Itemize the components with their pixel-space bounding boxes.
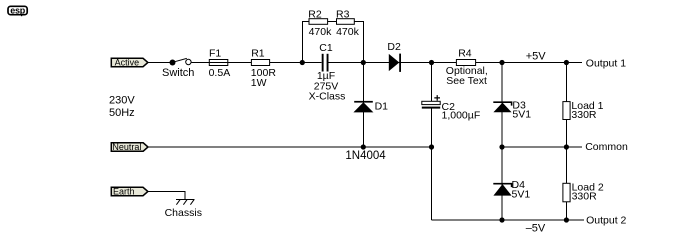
svg-text:Switch: Switch [162,67,194,79]
wire C2 bottom to minus rail [431,109,433,220]
svg-text:0.5A: 0.5A [209,67,231,79]
junction C2 neutral [429,144,434,149]
resistor Load2 [563,183,570,202]
svg-text:–5V: –5V [526,222,546,234]
svg-text:R4: R4 [458,47,472,59]
wire neutral rail [148,146,432,148]
svg-text:1W: 1W [251,77,267,89]
svg-text:Output 1: Output 1 [586,58,626,70]
svg-text:+5V: +5V [526,50,547,62]
svg-text:470k: 470k [309,26,333,38]
svg-text:470k: 470k [336,26,360,38]
node C junction [429,60,434,65]
svg-text:F1: F1 [209,47,221,59]
svg-text:230V: 230V [109,94,135,106]
wire C2 top [431,63,433,102]
wire earth lead [148,192,185,200]
svg-text:Active: Active [115,58,140,68]
resistor R1 [251,60,269,66]
diode D1 [353,101,373,113]
svg-text:esp: esp [10,5,25,15]
svg-text:50Hz: 50Hz [109,107,135,119]
svg-text:D2: D2 [387,41,401,53]
wire top loop R2 R3 [302,22,363,63]
switch pole dot [170,60,176,66]
svg-text:5V1: 5V1 [512,188,531,200]
svg-text:330R: 330R [572,190,598,202]
svg-text:Common: Common [585,141,628,153]
fuse F1 [209,60,228,66]
junction load2 bottom [564,217,569,222]
wire minus rail [432,219,585,221]
svg-text:1,000µF: 1,000µF [442,109,481,121]
svg-text:D1: D1 [375,100,389,112]
svg-text:5V1: 5V1 [512,109,531,121]
junction D1 bottom [361,144,366,149]
svg-text:Earth: Earth [113,187,135,197]
svg-text:C1: C1 [319,42,333,54]
svg-text:X-Class: X-Class [309,91,346,103]
wire active rail left [148,62,173,64]
junction D4 bottom [499,217,504,222]
switch throw contact [186,59,191,64]
node B junction [361,60,366,65]
svg-text:1N4004: 1N4004 [345,150,386,162]
svg-text:330R: 330R [571,109,597,121]
diode D2 [389,54,401,72]
junction load mid [564,144,569,149]
wire D1 branch [362,63,364,148]
flag Active [111,58,148,66]
flag Neutral [111,143,148,151]
flag Earth [111,187,148,195]
junction zener mid [499,144,504,149]
svg-text:See Text: See Text [446,75,487,87]
svg-text:Chassis: Chassis [165,207,202,219]
chassis symbol [176,199,194,204]
switch lever [173,58,187,62]
svg-text:Output 2: Output 2 [586,214,626,226]
resistor R2 [309,19,328,25]
zener D4 [493,184,511,196]
resistor R3 [337,19,355,25]
capacitor C2 [422,95,440,109]
esp logo [8,5,27,16]
svg-text:R2: R2 [308,8,322,20]
wire zener branch [501,63,503,221]
resistor R4 [456,60,475,66]
junction load1 top [564,60,569,65]
wire load branch [565,63,567,221]
zener D3 [493,102,511,112]
svg-text:Neutral: Neutral [112,142,141,152]
wire active rail middle [191,62,321,64]
wire active rail right [329,62,582,64]
wire common segment [502,146,582,148]
node A junction [300,60,305,65]
capacitor C1 [322,54,329,72]
svg-text:R1: R1 [251,47,265,59]
resistor Load1 [563,102,570,120]
svg-text:R3: R3 [336,8,350,20]
junction D3 top [499,60,504,65]
